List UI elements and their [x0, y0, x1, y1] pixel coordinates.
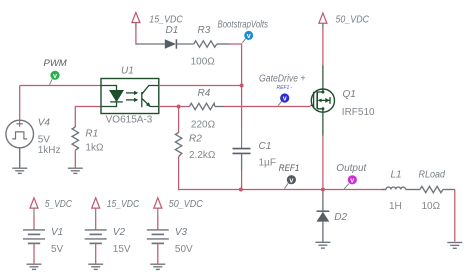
resistor R2 — [175, 133, 181, 157]
wire to D1 anode — [137, 43, 165, 45]
svg-text:5_VDC: 5_VDC — [45, 199, 73, 210]
probe PWM — [50, 71, 60, 85]
svg-text:v: v — [289, 175, 293, 184]
svg-text:R1: R1 — [85, 128, 98, 139]
wire 15_VDC vertical — [136, 27, 138, 45]
resistor R1 — [72, 127, 78, 168]
ground (under V1) — [27, 264, 42, 269]
svg-text:R4: R4 — [198, 88, 211, 99]
ground (under R1) — [68, 168, 83, 173]
power symbol 50_VDC (V3) — [154, 198, 162, 215]
svg-text:R2: R2 — [189, 134, 202, 145]
ground (under V2) — [88, 264, 103, 269]
battery V2 — [85, 230, 107, 244]
svg-text:V2: V2 — [113, 227, 126, 238]
wire V2 top — [95, 215, 97, 230]
power symbol 5_VDC (V1) — [30, 198, 38, 215]
svg-text:v: v — [247, 31, 251, 40]
svg-text:PWM: PWM — [44, 58, 67, 69]
svg-text:v: v — [53, 71, 57, 80]
transistor Q1 IRF510 — [311, 66, 335, 136]
node C1/rail junction — [239, 188, 243, 192]
svg-text:15_VDC: 15_VDC — [149, 15, 183, 26]
svg-text:D1: D1 — [166, 25, 179, 36]
resistor R4 — [189, 103, 224, 109]
svg-text:5V: 5V — [51, 244, 64, 255]
source V4 — [6, 86, 34, 169]
svg-text:220Ω: 220Ω — [191, 119, 216, 130]
capacitor C1 — [233, 149, 251, 154]
probe GateDrive + — [278, 93, 289, 105]
wire U1 emitter to R4 — [159, 106, 190, 108]
svg-text:REF1: REF1 — [279, 163, 300, 174]
node R2/R4 junction — [177, 105, 181, 109]
wire U1 pin4 to R1 — [75, 107, 101, 128]
wire RLoad to ground — [454, 190, 456, 242]
node source/rail junction — [321, 188, 325, 192]
svg-text:U1: U1 — [121, 66, 134, 77]
power symbol 50_VDC (top) — [319, 13, 327, 28]
wire 50_VDC to Q1 drain — [322, 28, 324, 66]
ground (under D2) — [315, 242, 330, 248]
svg-text:IRF510: IRF510 — [342, 107, 375, 118]
power symbol 15_VDC (top) — [132, 13, 140, 27]
svg-text:2.2kΩ: 2.2kΩ — [189, 150, 216, 161]
svg-text:v: v — [283, 94, 287, 103]
inductor L1 — [382, 187, 421, 189]
svg-text:REF1 -: REF1 - — [277, 85, 293, 91]
svg-text:15V: 15V — [113, 244, 131, 255]
battery V1 — [23, 230, 45, 244]
battery V3 — [147, 230, 169, 244]
ground (under V3) — [150, 264, 165, 269]
svg-text:50_VDC: 50_VDC — [169, 199, 204, 210]
svg-text:Output: Output — [336, 163, 367, 174]
probe Output — [344, 175, 357, 189]
wire V2 bottom — [95, 243, 97, 263]
svg-text:RLoad: RLoad — [419, 169, 446, 180]
svg-text:15_VDC: 15_VDC — [107, 199, 140, 210]
power symbol 15_VDC (V2) — [92, 198, 100, 215]
diode D1 — [165, 39, 194, 48]
svg-text:V1: V1 — [51, 227, 63, 238]
resistor R3 — [194, 41, 229, 47]
svg-text:VO615A-3: VO615A-3 — [106, 115, 153, 126]
svg-text:GateDrive +: GateDrive + — [259, 73, 306, 84]
svg-text:50V: 50V — [175, 244, 193, 255]
wire Q1 source to rail — [322, 136, 324, 190]
svg-text:L1: L1 — [391, 169, 402, 180]
svg-text:v: v — [350, 176, 354, 185]
svg-text:R3: R3 — [198, 25, 211, 36]
probe BootstrapVolts — [242, 31, 253, 43]
wire output rail — [241, 189, 385, 191]
wire V1 top — [33, 215, 35, 230]
wire U1 collector to bootstrap node — [159, 85, 242, 87]
wire PWM net — [20, 85, 101, 87]
svg-text:V3: V3 — [175, 227, 188, 238]
probe REF1 — [284, 175, 296, 189]
ground (under V4) — [12, 168, 27, 173]
svg-text:D2: D2 — [334, 212, 347, 223]
wire R2 branch — [178, 107, 180, 133]
wire R3 to corner — [229, 44, 242, 86]
resistor RLoad — [420, 186, 455, 192]
svg-text:Q1: Q1 — [343, 89, 356, 100]
svg-text:V4: V4 — [38, 117, 51, 128]
node bootstrap junction — [240, 84, 244, 88]
wire R2 to rail — [179, 157, 241, 190]
svg-text:1µF: 1µF — [259, 158, 276, 169]
wire C1 to rail — [241, 171, 243, 190]
svg-text:1H: 1H — [389, 201, 402, 212]
svg-text:100Ω: 100Ω — [191, 57, 216, 68]
wire V1 bottom — [33, 243, 35, 263]
ground (under RLoad) — [447, 243, 462, 249]
svg-text:10Ω: 10Ω — [422, 201, 441, 212]
svg-text:50_VDC: 50_VDC — [336, 15, 370, 26]
svg-text:C1: C1 — [259, 141, 272, 152]
wire V3 top — [157, 215, 159, 230]
wire bootstrap node down to C1 — [241, 86, 243, 128]
svg-text:BootstrapVolts: BootstrapVolts — [218, 19, 269, 30]
diode D2 — [317, 190, 330, 243]
op-amp U1 optocoupler VO615A-3 — [101, 79, 159, 114]
wire gate net R4 to Q1 — [224, 106, 311, 108]
svg-text:1kΩ: 1kΩ — [85, 142, 104, 153]
wire V3 bottom — [157, 243, 159, 263]
svg-text:1kHz: 1kHz — [38, 145, 61, 156]
